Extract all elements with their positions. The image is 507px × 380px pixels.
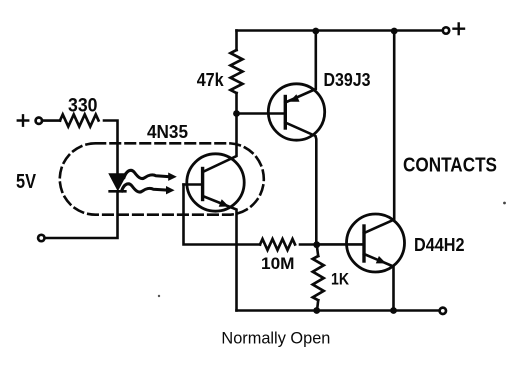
terminal top-right (open circle) bbox=[443, 27, 449, 33]
svg-text:D39J3: D39J3 bbox=[324, 70, 371, 90]
label + at top-right terminal bbox=[454, 24, 465, 35]
junction dot bottom rail / Q3 emitter bbox=[390, 307, 397, 314]
Q1 base bar bbox=[201, 169, 204, 200]
light arrow upper (wavy) bbox=[124, 170, 177, 181]
wire from 10M to node B bbox=[300, 243, 317, 246]
Q3 collector lead up to top rail bbox=[364, 31, 394, 233]
optocoupler U1 4N35 dashed outline (stadium) bbox=[60, 143, 264, 214]
svg-text:5V: 5V bbox=[16, 171, 37, 193]
transistor Q2 D39J3: circle bbox=[268, 84, 324, 140]
scan speck right edge bbox=[503, 202, 506, 205]
wire from top-left terminal to resistor R1 bbox=[43, 119, 60, 122]
wire node B down to 1K bbox=[317, 245, 319, 256]
Q2 base bar bbox=[284, 97, 287, 129]
wire node B to Q3 base bbox=[317, 243, 364, 246]
light arrow lower (wavy) bbox=[122, 184, 175, 195]
resistor R4 1K (zigzag) bbox=[313, 256, 324, 300]
resistor R3 10M (zigzag) bbox=[260, 239, 295, 250]
node + label: plus sign at 5V input bbox=[18, 115, 28, 125]
junction dot top rail / Q3 collector bbox=[391, 28, 398, 35]
terminal top-left (open circle) bbox=[36, 118, 42, 124]
svg-text:330: 330 bbox=[68, 96, 98, 117]
wire node A to Q2 base bbox=[237, 112, 286, 115]
wire 47k to node A bbox=[235, 93, 238, 114]
svg-text:1K: 1K bbox=[331, 271, 349, 289]
wire from LED cathode down and left to bottom-left terminal bbox=[45, 191, 118, 238]
bottom rail wire bbox=[237, 309, 439, 312]
svg-text:CONTACTS: CONTACTS bbox=[403, 154, 497, 177]
Q1 emitter lead with arrow, down to bottom rail bbox=[203, 196, 237, 311]
node A junction dot (47k / Q1 collector / Q2 base) bbox=[233, 110, 240, 117]
junction dot bottom rail / 1K bbox=[313, 307, 320, 314]
svg-text:4N35: 4N35 bbox=[147, 122, 188, 142]
svg-text:Normally Open: Normally Open bbox=[221, 329, 330, 348]
LED cathode bar bbox=[110, 190, 126, 193]
Q1 base lead bbox=[184, 183, 203, 186]
node B junction dot (10M / 1K / Q2 collector / Q3 base) bbox=[313, 241, 320, 248]
Q3 emitter lead with arrow, down to bottom rail bbox=[364, 254, 394, 311]
svg-text:47k: 47k bbox=[197, 70, 225, 90]
wire 1K to bottom rail bbox=[317, 300, 318, 310]
scan speck bbox=[158, 295, 160, 297]
resistor R1 330 (zigzag) bbox=[60, 115, 99, 127]
wire from R1 to corner, down to LED anode bbox=[104, 121, 118, 175]
LED of optocoupler U1 (triangle) bbox=[110, 174, 127, 190]
svg-text:D44H2: D44H2 bbox=[414, 234, 465, 255]
Q3 base bar bbox=[362, 226, 365, 261]
resistor R2 47k (zigzag) bbox=[231, 50, 243, 93]
terminal bottom-right (open circle) bbox=[440, 308, 446, 314]
Q2 collector lead down to node B bbox=[285, 123, 316, 245]
terminal bottom-left (open circle) bbox=[38, 235, 44, 241]
junction dot top rail / Q2 emitter bbox=[312, 28, 319, 35]
phototransistor Q1 of 4N35: circle bbox=[187, 154, 244, 211]
top rail wire bbox=[237, 29, 442, 32]
wire top rail down to 47k bbox=[235, 31, 238, 51]
transistor Q3 D44H2: circle bbox=[347, 214, 405, 272]
Q2 emitter lead with arrow toward base, up to top rail bbox=[285, 31, 316, 103]
wire from Q1 base down to 10M resistor bbox=[184, 185, 261, 245]
Q1 collector lead (to top node) bbox=[203, 114, 237, 173]
svg-text:10M: 10M bbox=[261, 255, 295, 273]
